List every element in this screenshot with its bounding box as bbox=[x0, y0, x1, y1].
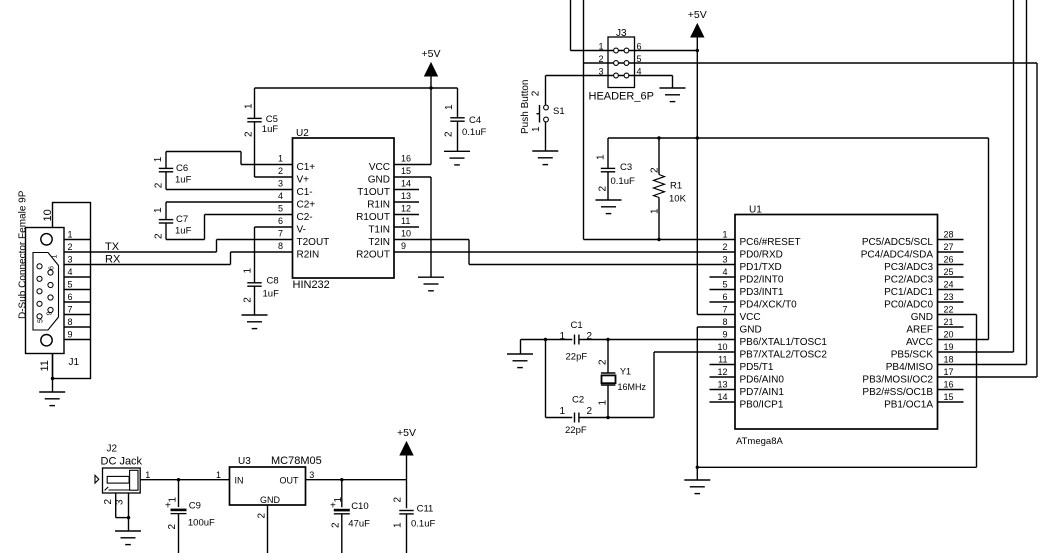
svg-text:2: 2 bbox=[650, 167, 661, 173]
svg-text:1uF: 1uF bbox=[175, 175, 192, 186]
svg-text:9: 9 bbox=[401, 241, 406, 251]
svg-text:10K: 10K bbox=[669, 194, 687, 205]
svg-text:6: 6 bbox=[722, 292, 727, 302]
svg-text:3: 3 bbox=[278, 179, 283, 189]
svg-text:14: 14 bbox=[717, 392, 727, 402]
svg-text:0.1uF: 0.1uF bbox=[611, 176, 635, 187]
svg-text:PB1/OC1A: PB1/OC1A bbox=[884, 400, 933, 411]
svg-text:PC5/ADC5/SCL: PC5/ADC5/SCL bbox=[862, 237, 934, 248]
svg-text:2: 2 bbox=[68, 242, 73, 252]
svg-text:3: 3 bbox=[68, 255, 73, 265]
svg-text:1: 1 bbox=[52, 255, 59, 259]
svg-text:J3: J3 bbox=[616, 28, 627, 39]
svg-text:2: 2 bbox=[598, 359, 609, 365]
svg-text:PB2/#SS/OC1B: PB2/#SS/OC1B bbox=[862, 387, 933, 398]
svg-text:18: 18 bbox=[944, 355, 954, 365]
svg-text:11: 11 bbox=[401, 216, 410, 226]
svg-text:17: 17 bbox=[944, 367, 954, 377]
svg-text:2: 2 bbox=[598, 186, 609, 192]
svg-text:C3: C3 bbox=[620, 162, 632, 173]
svg-text:1: 1 bbox=[598, 400, 609, 406]
svg-text:11: 11 bbox=[718, 355, 727, 365]
svg-text:9: 9 bbox=[722, 330, 727, 340]
svg-text:C1: C1 bbox=[571, 320, 583, 331]
svg-text:19: 19 bbox=[944, 342, 954, 352]
svg-text:3: 3 bbox=[309, 470, 314, 480]
svg-text:T2IN: T2IN bbox=[368, 237, 390, 248]
svg-text:4: 4 bbox=[68, 267, 73, 277]
svg-text:C11: C11 bbox=[417, 504, 434, 515]
svg-text:26: 26 bbox=[944, 255, 954, 265]
svg-text:MC78M05: MC78M05 bbox=[271, 455, 322, 467]
svg-text:1: 1 bbox=[333, 497, 344, 503]
svg-text:1: 1 bbox=[278, 154, 283, 164]
svg-text:2: 2 bbox=[393, 497, 404, 503]
svg-text:2: 2 bbox=[331, 522, 342, 528]
svg-text:2: 2 bbox=[531, 90, 542, 96]
svg-text:C1+: C1+ bbox=[297, 162, 316, 173]
svg-text:PC0/ADC0: PC0/ADC0 bbox=[884, 300, 933, 311]
svg-text:0.1uF: 0.1uF bbox=[462, 127, 486, 138]
svg-text:20: 20 bbox=[944, 330, 954, 340]
svg-text:5: 5 bbox=[68, 280, 73, 290]
svg-text:9: 9 bbox=[47, 312, 54, 316]
svg-text:27: 27 bbox=[944, 242, 954, 252]
svg-text:10: 10 bbox=[717, 342, 727, 352]
svg-text:22pF: 22pF bbox=[565, 425, 587, 436]
svg-text:1: 1 bbox=[393, 522, 404, 528]
svg-text:1: 1 bbox=[531, 126, 542, 132]
svg-text:PC2/ADC3: PC2/ADC3 bbox=[884, 275, 933, 286]
svg-text:16: 16 bbox=[401, 154, 411, 164]
svg-text:C4: C4 bbox=[469, 115, 481, 126]
svg-text:4: 4 bbox=[278, 191, 283, 201]
svg-text:OUT: OUT bbox=[280, 476, 300, 486]
svg-text:Y1: Y1 bbox=[620, 367, 631, 377]
svg-text:C7: C7 bbox=[176, 214, 188, 225]
svg-text:1: 1 bbox=[444, 104, 455, 110]
svg-text:2: 2 bbox=[167, 524, 178, 530]
svg-text:2: 2 bbox=[587, 331, 593, 342]
svg-text:6: 6 bbox=[68, 292, 73, 302]
svg-text:2: 2 bbox=[587, 406, 593, 417]
svg-text:TX: TX bbox=[105, 241, 120, 253]
svg-text:16: 16 bbox=[944, 380, 954, 390]
svg-text:28: 28 bbox=[944, 230, 954, 240]
svg-text:2: 2 bbox=[257, 513, 268, 519]
svg-text:V-: V- bbox=[297, 225, 306, 236]
svg-text:U2: U2 bbox=[296, 128, 309, 139]
svg-text:23: 23 bbox=[944, 292, 954, 302]
svg-text:GND: GND bbox=[911, 312, 933, 323]
svg-text:1: 1 bbox=[560, 331, 566, 342]
svg-text:T1IN: T1IN bbox=[368, 225, 390, 236]
svg-text:U1: U1 bbox=[749, 205, 762, 216]
svg-text:C2: C2 bbox=[572, 395, 584, 406]
svg-text:C10: C10 bbox=[351, 501, 368, 512]
svg-text:R2IN: R2IN bbox=[297, 250, 320, 261]
svg-text:PB6/XTAL1/TOSC1: PB6/XTAL1/TOSC1 bbox=[740, 337, 828, 348]
svg-text:U3: U3 bbox=[238, 456, 251, 467]
svg-text:21: 21 bbox=[944, 317, 954, 327]
svg-text:J2: J2 bbox=[107, 444, 118, 455]
svg-text:9: 9 bbox=[68, 330, 73, 340]
svg-text:8: 8 bbox=[278, 241, 283, 251]
svg-text:PC6/#RESET: PC6/#RESET bbox=[740, 237, 801, 248]
svg-text:T2OUT: T2OUT bbox=[297, 237, 330, 248]
svg-text:+5V: +5V bbox=[397, 427, 416, 439]
svg-text:11: 11 bbox=[39, 360, 51, 371]
svg-text:1: 1 bbox=[244, 103, 255, 109]
svg-text:6: 6 bbox=[278, 216, 283, 226]
svg-text:47uF: 47uF bbox=[348, 519, 370, 530]
svg-text:PD4/XCK/T0: PD4/XCK/T0 bbox=[740, 300, 798, 311]
svg-text:PC3/ADC3: PC3/ADC3 bbox=[884, 262, 933, 273]
svg-text:7: 7 bbox=[722, 305, 727, 315]
svg-text:1: 1 bbox=[242, 268, 253, 274]
svg-text:PB7/XTAL2/TOSC2: PB7/XTAL2/TOSC2 bbox=[740, 350, 828, 361]
svg-text:2: 2 bbox=[242, 297, 253, 303]
svg-text:2: 2 bbox=[444, 131, 455, 137]
svg-text:VCC: VCC bbox=[740, 312, 761, 323]
svg-text:12: 12 bbox=[401, 204, 411, 214]
svg-text:HEADER_6P: HEADER_6P bbox=[589, 91, 654, 103]
svg-text:24: 24 bbox=[944, 280, 954, 290]
svg-text:+5V: +5V bbox=[422, 48, 441, 60]
svg-text:5: 5 bbox=[278, 204, 283, 214]
svg-text:D-Sub Connector Female 9P: D-Sub Connector Female 9P bbox=[18, 190, 29, 319]
svg-text:S1: S1 bbox=[553, 106, 565, 117]
svg-text:AVCC: AVCC bbox=[906, 337, 933, 348]
svg-text:100uF: 100uF bbox=[188, 518, 215, 529]
svg-text:GND: GND bbox=[740, 325, 762, 336]
svg-text:IN: IN bbox=[235, 476, 244, 486]
svg-text:10: 10 bbox=[401, 229, 411, 239]
svg-text:1: 1 bbox=[650, 208, 661, 214]
svg-text:PC1/ADC1: PC1/ADC1 bbox=[884, 287, 933, 298]
svg-text:4: 4 bbox=[722, 267, 727, 277]
svg-text:1: 1 bbox=[722, 230, 727, 240]
svg-text:RX: RX bbox=[105, 254, 121, 266]
svg-text:2: 2 bbox=[103, 499, 114, 505]
svg-text:1uF: 1uF bbox=[175, 226, 192, 237]
svg-text:VCC: VCC bbox=[369, 162, 390, 173]
svg-text:6: 6 bbox=[49, 266, 56, 270]
svg-text:PC4/ADC4/SDA: PC4/ADC4/SDA bbox=[861, 250, 934, 261]
svg-text:1uF: 1uF bbox=[263, 289, 280, 300]
svg-text:C6: C6 bbox=[176, 163, 188, 174]
svg-text:PD0/RXD: PD0/RXD bbox=[740, 250, 783, 261]
svg-text:5: 5 bbox=[722, 280, 727, 290]
svg-text:GND: GND bbox=[368, 175, 390, 186]
svg-text:PB3/MOSI/OC2: PB3/MOSI/OC2 bbox=[862, 375, 933, 386]
svg-text:GND: GND bbox=[260, 495, 281, 505]
svg-text:J1: J1 bbox=[69, 357, 80, 368]
svg-text:C2-: C2- bbox=[297, 212, 313, 223]
svg-text:C9: C9 bbox=[189, 501, 201, 512]
svg-text:PD6/AIN0: PD6/AIN0 bbox=[740, 375, 785, 386]
svg-text:T1OUT: T1OUT bbox=[357, 187, 390, 198]
svg-text:1: 1 bbox=[168, 497, 179, 503]
svg-text:8: 8 bbox=[68, 317, 73, 327]
svg-text:2: 2 bbox=[278, 166, 283, 176]
svg-text:7: 7 bbox=[68, 305, 73, 315]
svg-text:1: 1 bbox=[68, 230, 73, 240]
svg-text:PD7/AIN1: PD7/AIN1 bbox=[740, 387, 785, 398]
svg-text:13: 13 bbox=[401, 191, 411, 201]
svg-text:15: 15 bbox=[401, 166, 411, 176]
svg-text:7: 7 bbox=[278, 229, 283, 239]
svg-text:1: 1 bbox=[216, 470, 221, 480]
svg-text:1: 1 bbox=[153, 207, 164, 213]
svg-text:2: 2 bbox=[154, 182, 165, 188]
svg-text:PB0/ICP1: PB0/ICP1 bbox=[740, 400, 784, 411]
svg-text:R1OUT: R1OUT bbox=[356, 212, 390, 223]
svg-text:22pF: 22pF bbox=[566, 352, 588, 363]
svg-text:PD3/INT1: PD3/INT1 bbox=[740, 287, 784, 298]
svg-text:C2+: C2+ bbox=[297, 200, 316, 211]
svg-text:1: 1 bbox=[153, 156, 164, 162]
svg-text:10: 10 bbox=[42, 209, 54, 221]
svg-text:DC Jack: DC Jack bbox=[101, 456, 143, 468]
svg-text:14: 14 bbox=[401, 179, 411, 189]
svg-text:3: 3 bbox=[115, 499, 126, 505]
svg-text:PD1/TXD: PD1/TXD bbox=[740, 262, 782, 273]
svg-text:R1IN: R1IN bbox=[367, 200, 390, 211]
svg-text:5: 5 bbox=[38, 319, 45, 323]
svg-text:25: 25 bbox=[944, 267, 954, 277]
svg-text:PD5/T1: PD5/T1 bbox=[740, 362, 774, 373]
svg-text:C8: C8 bbox=[267, 276, 279, 287]
svg-text:0.1uF: 0.1uF bbox=[411, 519, 435, 530]
svg-text:2: 2 bbox=[722, 242, 727, 252]
svg-text:R1: R1 bbox=[670, 181, 682, 192]
svg-text:R2OUT: R2OUT bbox=[356, 250, 390, 261]
svg-text:PB4/MISO: PB4/MISO bbox=[886, 362, 933, 373]
svg-text:3: 3 bbox=[722, 255, 727, 265]
svg-text:2: 2 bbox=[243, 131, 254, 137]
svg-text:ATmega8A: ATmega8A bbox=[736, 436, 783, 447]
svg-text:PB5/SCK: PB5/SCK bbox=[891, 350, 934, 361]
svg-text:13: 13 bbox=[717, 380, 727, 390]
svg-text:1: 1 bbox=[145, 470, 150, 480]
svg-text:1: 1 bbox=[596, 154, 607, 160]
svg-text:AREF: AREF bbox=[906, 325, 933, 336]
svg-text:HIN232: HIN232 bbox=[293, 279, 330, 291]
svg-text:PD2/INT0: PD2/INT0 bbox=[740, 275, 784, 286]
svg-text:22: 22 bbox=[944, 305, 954, 315]
svg-text:1uF: 1uF bbox=[262, 124, 279, 135]
svg-text:16MHz: 16MHz bbox=[618, 382, 647, 392]
svg-text:2: 2 bbox=[154, 233, 165, 239]
svg-text:15: 15 bbox=[944, 392, 954, 402]
svg-text:+5V: +5V bbox=[688, 9, 707, 21]
svg-text:V+: V+ bbox=[297, 175, 310, 186]
svg-text:1: 1 bbox=[560, 406, 566, 417]
svg-text:8: 8 bbox=[722, 317, 727, 327]
svg-text:12: 12 bbox=[717, 367, 727, 377]
svg-text:Push Button: Push Button bbox=[520, 80, 531, 134]
svg-text:C1-: C1- bbox=[297, 187, 313, 198]
